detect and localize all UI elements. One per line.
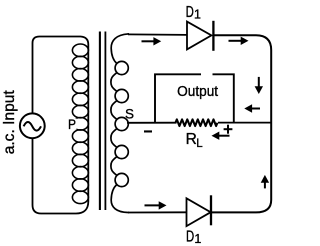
svg-text:R: R [186, 131, 197, 148]
diode D1 (bottom) triangle [187, 198, 211, 226]
label D1 (top) [186, 4, 201, 21]
transformer secondary winding (arcs with loops and centre tap) [111, 34, 129, 213]
svg-text:L: L [196, 138, 203, 150]
label: plus polarity [224, 125, 233, 134]
wire: resistor to right rail [218, 122, 271, 124]
resistor RL (zigzag) [176, 119, 218, 126]
arrow: current direction left (through RL region) [212, 132, 230, 140]
svg-text:S: S [125, 106, 134, 121]
label P (primary) [66, 117, 77, 132]
svg-text:1: 1 [194, 232, 201, 246]
diode D1 (top) cathode bar [212, 21, 214, 51]
output box (open-bottom rectangle with gap in top edge) [155, 74, 234, 122]
svg-text:P: P [68, 117, 76, 132]
svg-text:a.c. Input: a.c. Input [1, 90, 18, 155]
svg-text:Output: Output [177, 83, 219, 100]
arrow: current direction down (right rail) [255, 77, 263, 94]
transformer primary winding P (coil loops) [72, 44, 88, 204]
svg-text:D: D [186, 228, 194, 245]
transformer core (two parallel vertical lines) [100, 32, 106, 211]
diode D1 (top) triangle [187, 22, 211, 50]
wire: top from secondary to diode D1 anode [128, 33, 187, 36]
ac source symbol (circle with sine wave) [20, 113, 45, 138]
arrow: current direction right (top-left) [142, 37, 162, 45]
wire: centre tap to load resistor [127, 122, 177, 124]
wire: bottom from secondary to diode D1 (bottom) anode [128, 211, 187, 213]
svg-text:1: 1 [194, 8, 201, 22]
diode D1 (bottom) cathode bar [210, 195, 212, 225]
arrow: current direction left (into output) [244, 104, 260, 112]
arrow: current direction right (top-right) [229, 37, 249, 45]
arrow: current direction right (bottom) [145, 201, 167, 209]
label RL [186, 131, 204, 150]
wire: top-right corner and right vertical rail down to bottom diode cathode [211, 35, 271, 212]
arrow: current direction up (bottom-right) [261, 175, 269, 189]
label D1 (bottom) [186, 228, 201, 245]
wire: primary circuit loop (left vertical, top and bottom horizontals) [33, 37, 89, 214]
label: minus polarity [144, 130, 152, 132]
svg-text:D: D [186, 4, 194, 21]
